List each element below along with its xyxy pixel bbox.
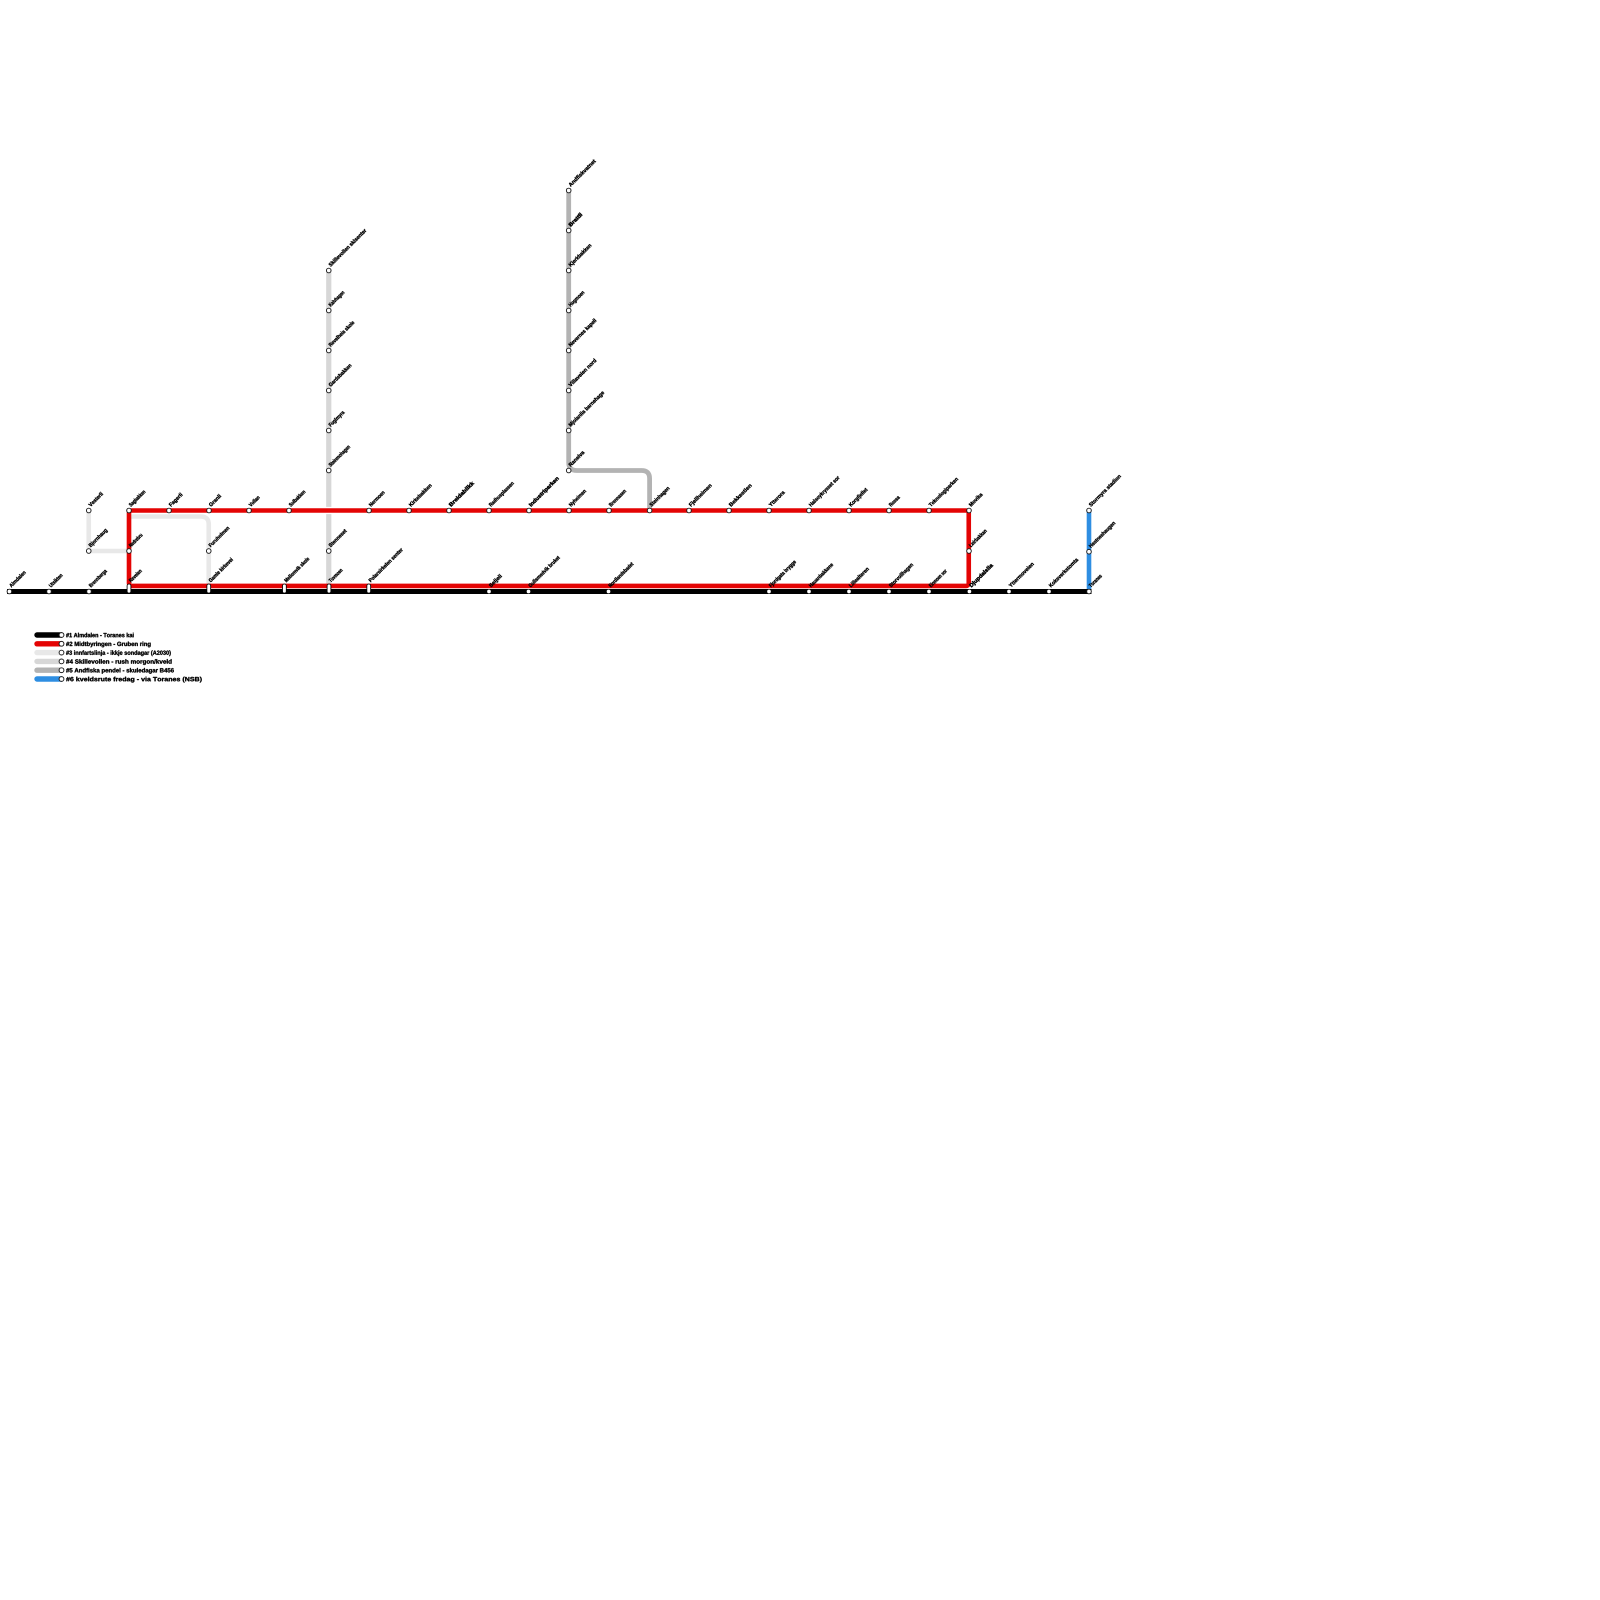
station Villaveien nord [566,388,571,393]
station Einmoen sor [927,590,931,594]
label Stenneset [328,529,347,548]
label Bjornhaug [88,528,108,548]
label legend text 1 [66,633,134,637]
station Gardsbakken [326,388,331,393]
label Hauanbakkene [808,562,833,587]
label Andfiskvatnet [568,159,596,187]
interchange Gamle kirkevei [207,584,211,593]
label Nyheimen [568,489,587,508]
station Kjerkbakken [566,268,571,273]
label Tuvmoen [328,568,343,583]
station Granli [207,508,212,513]
label Bekkestien [728,483,752,507]
station Ytterora [767,508,772,513]
legend row 2 swatch [37,641,62,646]
legend row 6 swatch [37,676,62,681]
station Utsikten [47,589,52,594]
label Einmoen sor [928,569,947,588]
label Hogmoen [568,290,585,307]
label Gardsbakken [328,363,352,387]
line 5 gray vertical east [569,188,650,511]
station Nermoen [367,508,372,513]
label Granli [208,494,221,507]
label Kirkebakken [408,483,432,507]
label Steinhagen [649,486,671,508]
station Revelheia skole [326,348,331,353]
legend row 4 swatch [37,659,62,664]
label legend text 2 [66,642,151,648]
label Nermoen [369,490,385,506]
label Villaveien nord [568,358,597,387]
station Seljeli [487,590,491,594]
label Breidablikk [448,481,474,507]
label Seljeli [488,574,503,589]
label Industriparken [528,476,559,507]
station Fagerli [167,508,172,513]
station Ranelva [566,468,571,473]
interchange Polarsirkelen senter [367,584,371,593]
line 4 gray vertical west [326,271,331,588]
label Storvollhagen [888,562,914,588]
station Kalvhagen [326,308,331,313]
station Skillevollen skisenter [326,268,331,273]
label Gullsmedvik bruket [528,555,560,587]
label Kjerkbakken [568,243,592,267]
legend row 1 swatch [37,632,62,637]
station Furuholmen [206,549,211,554]
label Polarsirkelen senter [368,547,403,582]
label Fuglmyra [328,410,346,428]
label Lillealteren [848,567,869,588]
label Toranes [1088,574,1102,588]
station Brattli [566,228,571,233]
label Mellomvik skole [284,557,310,583]
label Korgfjellet [848,487,868,507]
label Utsikten [48,573,62,587]
station Yttermoveien [1007,590,1011,594]
station Industriparken [527,508,532,513]
legend row 3 swatch [37,650,62,655]
station Fjellheimen [687,508,692,513]
station Andfiskvatnet [566,188,571,193]
label Nedrebru [128,533,142,547]
station Sagbakken [127,508,132,513]
label legend text 6 [66,677,202,683]
station Nedrebru [127,549,132,554]
terminus gray feeder [86,508,91,513]
label Hestneshaugen [1088,521,1116,549]
label Brattli [568,212,582,226]
label Mjolanlia barnehage [568,390,605,427]
station Koksverkstomta [1047,590,1051,594]
white casing at red/gray crossing [325,507,332,514]
station Brennasen [607,508,612,513]
label Movika [968,492,983,507]
label Skillevollen skisenter [328,228,367,267]
line 1 black trunk [7,589,1092,594]
line 3 light gray feeder [89,511,209,588]
label Fjellheimen [688,483,712,507]
label Halsoykrysset sor [808,475,840,507]
station Bekkestien [727,508,732,513]
station Steinmohagen [326,468,331,473]
label Vollan [248,495,260,507]
label Kalvhagen [328,290,345,307]
label Radhusplassen [488,481,515,508]
station Nevernes kapell [566,348,571,353]
label Djupdalslia [969,563,994,588]
station Vollan [247,508,252,513]
label Stormyra stadion [1088,474,1122,508]
label Teknologiparken [928,477,959,508]
label legend text 4 [66,659,171,665]
label Solbakken [288,490,305,507]
label Fjordgata brygge [768,560,797,589]
label Almdalen [9,570,26,587]
station Radhusplassen [487,508,492,513]
station Leirbakkan [967,549,972,554]
station Lillealteren [847,590,851,594]
label Koksverkstomta [1048,557,1078,587]
station Mjolanlia barnehage [566,428,571,433]
station Bjornhaug [86,549,91,554]
label Brennasen [609,489,627,507]
label Revelheia skole [328,320,355,347]
label Leirbakkan [968,529,987,548]
station Fuglmyra [326,428,331,433]
station Solbakken [287,508,292,513]
station Steinhagen [647,508,652,513]
label Gamle kirkevei [208,557,233,582]
station Fjordgata brygge [767,590,771,594]
label Yttermoveien [1008,562,1034,588]
station Hestneshaugen [1087,549,1092,554]
station Movika [967,508,972,513]
station Brennberga [87,589,92,594]
label Brennberga [88,569,108,589]
line 6 blue [1087,511,1092,592]
station Halsoykrysset sor [807,508,812,513]
station Nyheimen [567,508,572,513]
station Korgfjellet [847,508,852,513]
station Storvollhagen [887,590,891,594]
station Rossa [887,508,892,513]
station Hauanbakkene [807,590,811,594]
label Furuholmen [208,526,229,547]
legend row 5 swatch [37,668,62,673]
label Ranelva [568,450,585,467]
interchange Mellomvik skole [283,584,287,593]
station Teknologiparken [927,508,932,513]
station Hogmoen [566,308,571,313]
label Vesterli [88,492,103,507]
interchange Revelen [127,584,131,593]
label Nordlandsbadet [608,562,634,588]
label Nevernes kapell [568,318,597,347]
station Stenneset [326,549,331,554]
station Gullsmedvik bruket [527,590,531,594]
label Rossa [889,495,901,507]
station Toranes [1087,589,1092,594]
label Sagbakken [128,490,146,508]
station Djupdalslia [968,590,972,594]
terminus blue top [1087,508,1092,513]
label Steinmohagen [328,445,351,468]
label Revelen [128,569,142,583]
interchange Tuvmoen [327,584,331,593]
line 2 red loop [129,511,969,586]
label Ytterora [768,490,785,507]
label legend text 5 [66,668,174,674]
label legend text 3 [66,650,171,656]
station Almdalen [7,589,12,594]
station Breidablikk [447,508,452,513]
station Nordlandsbadet [607,590,611,594]
label Fagerli [168,492,183,507]
station Kirkebakken [407,508,412,513]
